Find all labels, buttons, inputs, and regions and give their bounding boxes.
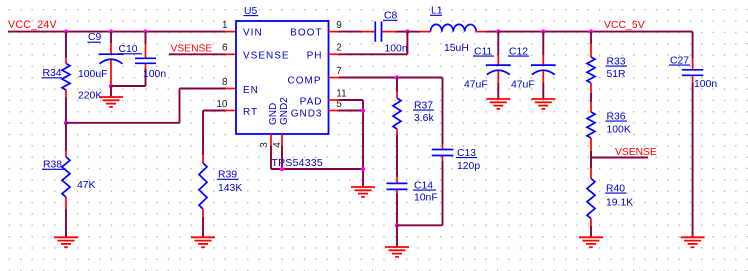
label R37 xyxy=(413,100,434,111)
svg-text:9: 9 xyxy=(336,20,342,31)
pin number 7 xyxy=(336,66,342,77)
svg-text:VIN: VIN xyxy=(243,28,263,39)
svg-text:PAD: PAD xyxy=(300,97,323,108)
label C9 xyxy=(88,32,102,43)
wire EN node down to R38 xyxy=(65,123,67,150)
svg-text:120p: 120p xyxy=(457,161,480,172)
resistor R38 xyxy=(62,150,70,209)
svg-text:47K: 47K xyxy=(77,180,96,191)
label R38 value 47K xyxy=(77,180,96,191)
label R37 value 3.6k xyxy=(414,113,434,124)
capacitor C11 top stub xyxy=(497,32,499,65)
svg-text:47uF: 47uF xyxy=(464,80,488,91)
svg-text:COMP: COMP xyxy=(288,76,322,87)
wire GND3 to ground column xyxy=(339,110,363,112)
svg-text:47uF: 47uF xyxy=(511,80,535,91)
pin number 4 rotated xyxy=(272,142,283,148)
label C10 value 100n xyxy=(143,69,166,80)
svg-text:100uF: 100uF xyxy=(78,69,107,80)
capacitor C12 top stub xyxy=(542,32,544,65)
capacitor C13 xyxy=(432,144,454,161)
capacitor C10 xyxy=(135,58,156,63)
resistor R37 xyxy=(393,92,401,135)
svg-text:C9: C9 xyxy=(88,32,102,43)
ground under C14 xyxy=(385,247,409,257)
op-amp U5 IC body TPS54335 xyxy=(236,21,329,134)
wire VSENSE node to R40 xyxy=(590,158,592,169)
wire C13 branch down xyxy=(442,78,444,145)
svg-text:100n: 100n xyxy=(694,79,717,90)
net label VSENSE left xyxy=(171,43,213,54)
wire PH riser xyxy=(406,32,408,55)
wire R37 to C14 xyxy=(396,135,398,177)
node junction EN divider xyxy=(64,121,68,125)
pin name VSENSE xyxy=(243,51,290,62)
pin name GND2 rotated xyxy=(279,97,290,125)
pin 3 stub GND xyxy=(270,134,272,146)
svg-text:100n: 100n xyxy=(385,44,408,55)
pin 5 stub GND3 xyxy=(329,110,340,112)
label TPS54335 xyxy=(272,158,324,169)
node junction C14-C13-ground xyxy=(395,223,399,227)
pin 7 stub COMP xyxy=(329,77,340,79)
wire ground stem R37 node xyxy=(396,225,398,247)
pin name GND3 xyxy=(291,108,323,119)
svg-text:3.6k: 3.6k xyxy=(414,113,434,124)
label R33 value 51R xyxy=(607,69,627,80)
pin name PH xyxy=(307,51,323,62)
capacitor C8 xyxy=(362,21,396,41)
wire C14 to ground node xyxy=(396,194,398,225)
wire R33 to R36 xyxy=(590,93,592,102)
svg-text:VSENSE: VSENSE xyxy=(615,147,657,158)
node junction GND3-column xyxy=(361,108,365,112)
svg-text:143K: 143K xyxy=(218,183,242,194)
wire C13 to ground node xyxy=(397,161,443,225)
wire PAD to ground column xyxy=(339,100,363,187)
capacitor C11 xyxy=(486,65,511,75)
label R40 value 19.1K xyxy=(606,197,633,208)
label C8 xyxy=(383,11,398,22)
node junction COMP-R37 xyxy=(395,75,399,79)
label R40 xyxy=(605,183,627,194)
net label VSENSE right xyxy=(615,147,657,158)
label R33 xyxy=(606,56,628,67)
svg-text:VCC_5V: VCC_5V xyxy=(604,20,645,31)
pin name VIN xyxy=(243,28,263,39)
label C14 xyxy=(413,180,436,191)
svg-text:10nF: 10nF xyxy=(414,193,438,204)
wire RT net xyxy=(203,111,226,156)
inductor L1 xyxy=(407,24,498,31)
node junction rail-R34 xyxy=(64,29,68,33)
pin number 8 xyxy=(222,77,228,88)
svg-text:BOOT: BOOT xyxy=(290,28,322,39)
node junction rail-C12 xyxy=(541,29,545,33)
node junction rail-R33 xyxy=(589,29,593,33)
pin name PAD xyxy=(300,97,323,108)
capacitor C9 xyxy=(99,54,124,64)
svg-text:100K: 100K xyxy=(607,124,631,135)
capacitor C9 bottom stub xyxy=(110,60,112,86)
label C27 xyxy=(669,55,690,66)
pin number 3 rotated xyxy=(259,142,270,148)
wire PH net xyxy=(339,53,407,55)
wire R39 to ground xyxy=(202,217,204,237)
ground under C27 xyxy=(681,237,705,247)
capacitor C10 bottom stub xyxy=(145,64,147,69)
node junction rail-C9 xyxy=(109,29,113,33)
wire rail to R34 xyxy=(65,32,67,58)
pin name GND rotated xyxy=(268,103,279,125)
wire VCC_24V rail xyxy=(8,31,226,33)
label C10 xyxy=(118,44,142,55)
pin 10 stub RT xyxy=(226,110,236,112)
svg-text:1: 1 xyxy=(222,20,228,31)
svg-text:VSENSE: VSENSE xyxy=(243,51,290,62)
label C14 value 10nF xyxy=(414,193,438,204)
svg-text:100n: 100n xyxy=(143,69,166,80)
svg-text:VSENSE: VSENSE xyxy=(171,43,213,54)
wire R36 to VSENSE node xyxy=(590,151,592,158)
label C27 value 100n xyxy=(694,79,717,90)
pin name EN xyxy=(243,85,259,96)
capacitor C12 xyxy=(531,65,556,75)
label C13 value 120p xyxy=(457,161,480,172)
wire pin3 to ground bus xyxy=(271,146,363,169)
pin name COMP xyxy=(288,76,322,87)
wire R40 to ground xyxy=(590,226,592,237)
svg-text:PH: PH xyxy=(307,51,323,62)
resistor R36 xyxy=(587,102,595,151)
wire BOOT to C8 xyxy=(339,31,362,33)
svg-text:GND2: GND2 xyxy=(279,97,290,125)
wire C9 bottom to C10 bottom xyxy=(111,68,146,86)
capacitor C27 bottom stub xyxy=(692,76,694,237)
capacitor C11 bottom stub xyxy=(497,71,499,99)
pin 2 stub PH xyxy=(329,53,340,55)
pin 8 stub EN xyxy=(226,88,236,90)
label C12 value 47uF xyxy=(511,80,535,91)
svg-text:EN: EN xyxy=(243,85,259,96)
label L1 xyxy=(430,6,443,17)
resistor R40 xyxy=(587,168,595,226)
pin number 9 xyxy=(336,20,342,31)
wire pin4 to ground bus xyxy=(281,146,283,169)
pin number 1 xyxy=(222,20,228,31)
svg-text:RT: RT xyxy=(243,107,258,118)
label C9 value 100uF xyxy=(78,69,107,80)
pin 6 stub VSENSE xyxy=(226,53,236,55)
label R39 value 143K xyxy=(218,183,242,194)
label R34 xyxy=(42,68,63,79)
node junction rail-C10 xyxy=(143,29,147,33)
pin 11 stub PAD xyxy=(329,99,340,101)
label R36 xyxy=(606,111,628,122)
ground IC xyxy=(351,187,375,197)
ground under R39 xyxy=(191,237,215,247)
net label VCC_24V xyxy=(8,19,58,31)
svg-text:11: 11 xyxy=(336,88,347,99)
node junction L1-C11 xyxy=(496,29,500,33)
svg-text:2: 2 xyxy=(336,43,342,54)
wire R34 to EN node xyxy=(65,98,67,123)
pin name BOOT xyxy=(290,28,322,39)
wire EN net xyxy=(66,89,226,123)
capacitor C12 bottom stub xyxy=(542,71,544,99)
wire COMP net xyxy=(339,77,443,79)
svg-text:8: 8 xyxy=(222,77,228,88)
node junction BOOT-PH-L1 xyxy=(405,29,409,33)
label C13 xyxy=(456,148,477,159)
wire VSENSE to pin 6 xyxy=(169,53,226,55)
capacitor C14 xyxy=(387,177,408,197)
svg-text:VCC_24V: VCC_24V xyxy=(8,19,58,31)
node junction C9-ground xyxy=(109,84,113,88)
pin name RT xyxy=(243,107,258,118)
wire VCC_5V rail xyxy=(498,31,692,33)
pin 1 stub VIN xyxy=(226,31,236,33)
wire R38 to ground xyxy=(65,209,67,237)
capacitor C27 xyxy=(682,70,703,76)
svg-text:10: 10 xyxy=(216,99,228,110)
pin number 5 xyxy=(336,99,342,110)
net label VCC_5V xyxy=(604,20,645,31)
svg-text:3: 3 xyxy=(259,142,270,148)
ground under R38 xyxy=(54,237,78,247)
svg-text:15uH: 15uH xyxy=(444,43,469,54)
label C11 value 47uF xyxy=(464,80,488,91)
label L1 value 15uH xyxy=(444,43,469,54)
label C8 value 100n xyxy=(385,44,408,55)
wire rail to R33 xyxy=(590,32,592,44)
pin number 10 xyxy=(216,99,228,110)
ground under C11 xyxy=(486,99,510,109)
svg-text:TPS54335: TPS54335 xyxy=(272,158,324,169)
label U5 xyxy=(244,6,259,17)
ground under C12 xyxy=(531,99,555,109)
svg-text:GND3: GND3 xyxy=(291,108,323,119)
wire ground stem C9 xyxy=(110,86,112,97)
label R38 xyxy=(42,160,64,171)
resistor R33 xyxy=(587,44,595,93)
wire C8 to PH node xyxy=(396,31,408,33)
svg-text:7: 7 xyxy=(336,66,342,77)
node junction bus-column xyxy=(361,167,365,171)
svg-text:51R: 51R xyxy=(607,69,627,80)
svg-text:220K: 220K xyxy=(78,90,102,101)
label R36 value 100K xyxy=(607,124,631,135)
resistor R39 xyxy=(199,155,207,217)
ground under R40 xyxy=(579,237,603,247)
svg-text:6: 6 xyxy=(222,43,228,54)
resistor R34 xyxy=(62,57,70,98)
svg-text:19.1K: 19.1K xyxy=(606,197,633,208)
svg-text:GND: GND xyxy=(268,103,279,125)
pin 9 stub BOOT xyxy=(329,31,340,33)
ground under C9 xyxy=(99,97,123,107)
label R39 xyxy=(217,170,239,181)
label R34 value 220K xyxy=(78,90,102,101)
pin 4 stub GND2 xyxy=(281,134,283,146)
pin number 11 xyxy=(336,88,347,99)
node junction pin4-bus xyxy=(280,167,284,171)
wire VSENSE stub right xyxy=(591,157,648,159)
label C12 xyxy=(508,46,529,57)
pin number 6 xyxy=(222,43,228,54)
wire rail corner to C27 xyxy=(692,32,694,70)
capacitor C9 top stub xyxy=(110,32,112,54)
capacitor C10 top stub xyxy=(145,32,147,58)
wire COMP to R37 xyxy=(396,78,398,93)
pin number 2 xyxy=(336,43,342,54)
label C11 xyxy=(473,46,494,57)
